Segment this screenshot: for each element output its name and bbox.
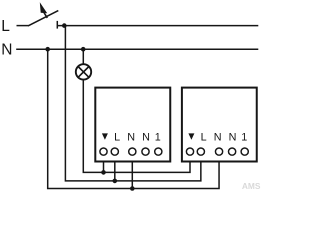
svg-text:1: 1 [241, 131, 247, 143]
svg-text:N: N [229, 131, 237, 143]
svg-text:L: L [201, 131, 207, 143]
wire N rail [16, 48, 258, 50]
wire L feed (left segment into switch S1) [17, 25, 29, 27]
svg-text:N: N [142, 131, 150, 143]
U1 terminal 5 (1) [155, 148, 162, 155]
wire L rail (switched side, runs to right edge) [57, 25, 258, 27]
U2 pin label arrow (load output) [188, 133, 194, 139]
svg-text:L: L [114, 131, 120, 143]
junction U1 L / L bus [113, 179, 118, 184]
wire lamp drop + load bus + riser to box2 terminal arrow [83, 80, 190, 172]
svg-text:1: 1 [155, 131, 161, 143]
wire lamp feed from N rail [82, 49, 84, 63]
wire U1 L terminal to L bus [114, 162, 116, 181]
switch S1 actuator arrow head [40, 2, 47, 13]
wire U1 arrow terminal to load bus [103, 162, 105, 173]
svg-text:N: N [1, 41, 12, 58]
junction U1 arrow / load bus [101, 170, 106, 175]
U1 terminal 2 (L) [111, 148, 118, 155]
switch S1 fixed contact tick [56, 21, 58, 29]
U2 terminal 4 (N) [229, 148, 236, 155]
wire switched-L drop + L bus + riser to box2 terminal L [65, 26, 200, 181]
lamp E1 (circle with cross) [76, 64, 91, 79]
U2 terminal 3 (N) [215, 148, 222, 155]
junction U1 N / N bus [130, 186, 135, 191]
insert U2 enclosure [182, 88, 257, 162]
U2 terminal 5 (1) [241, 148, 248, 155]
switch S1 blade [28, 11, 58, 26]
U1 pin label arrow (load output) [102, 133, 108, 139]
svg-text:L: L [1, 18, 10, 35]
switch S1 actuator arrow shaft [44, 12, 48, 18]
node on N rail (feed to N bus) [45, 47, 50, 52]
svg-text:AMS: AMS [242, 181, 261, 191]
wire U1 N terminal to N bus [131, 162, 133, 189]
U1 terminal 4 (N) [142, 148, 149, 155]
svg-text:N: N [127, 131, 135, 143]
insert U1 enclosure [95, 88, 170, 162]
U1 terminal 1 (arrow/load) [100, 148, 107, 155]
node on L rail after switch [62, 23, 67, 28]
svg-text:N: N [214, 131, 222, 143]
node on N rail (feed to lamp) [81, 47, 86, 52]
U2 terminal 1 (arrow/load) [186, 148, 193, 155]
U1 terminal 3 (N) [129, 148, 136, 155]
U2 terminal 2 (L) [197, 148, 204, 155]
wire N drop + N bus + riser to box2 terminal N [48, 49, 219, 188]
